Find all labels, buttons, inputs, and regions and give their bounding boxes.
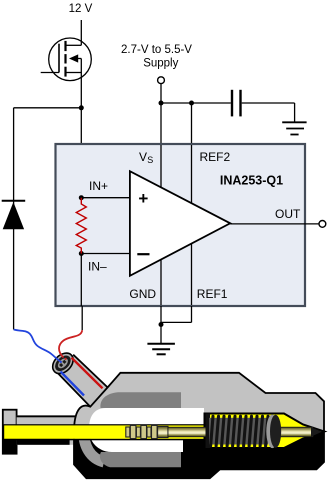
svg-text:2.7-V to 5.5-V: 2.7-V to 5.5-V: [121, 44, 192, 56]
svg-text:REF1: REF1: [197, 287, 228, 301]
svg-text:V: V: [139, 150, 147, 164]
svg-text:S: S: [147, 155, 153, 165]
svg-text:INA253-Q1: INA253-Q1: [220, 174, 283, 188]
svg-text:Supply: Supply: [143, 58, 178, 70]
svg-text:IN+: IN+: [89, 179, 108, 193]
svg-text:GND: GND: [129, 287, 156, 301]
svg-text:+: +: [138, 189, 148, 208]
svg-text:12 V: 12 V: [69, 3, 93, 15]
svg-text:IN–: IN–: [88, 259, 107, 273]
svg-text:REF2: REF2: [200, 150, 231, 164]
svg-text:OUT: OUT: [275, 207, 301, 221]
